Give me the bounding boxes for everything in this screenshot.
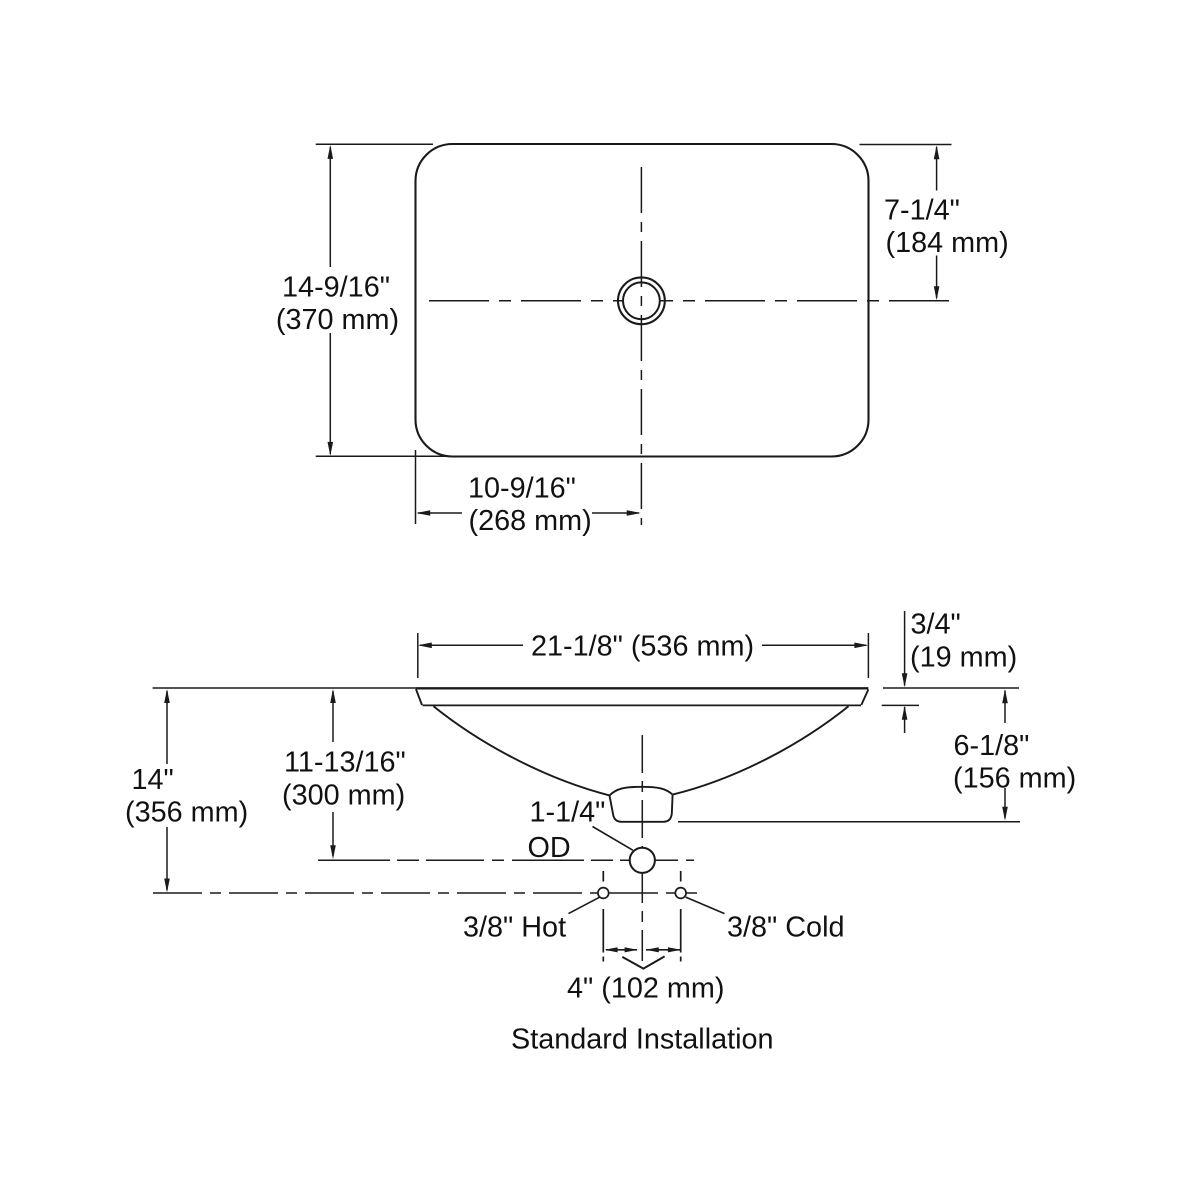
dimension line 10-9/16 xyxy=(418,512,462,514)
horizontal centerline top view xyxy=(429,300,950,302)
svg-text:3/8" Cold: 3/8" Cold xyxy=(727,912,844,944)
dimension line 7-1/4 xyxy=(936,147,938,191)
vertical centerline top view xyxy=(640,167,642,525)
svg-text:6-1/8": 6-1/8" xyxy=(954,730,1030,762)
hot supply circle xyxy=(598,888,609,899)
rim left end edge xyxy=(416,689,422,705)
sink top view outline xyxy=(416,144,869,457)
rim right end edge xyxy=(861,690,868,706)
svg-text:4" (102 mm): 4" (102 mm) xyxy=(567,973,724,1005)
svg-text:(268 mm): (268 mm) xyxy=(469,505,592,537)
dimension line 3/4 xyxy=(904,611,906,686)
dimension line 4 inch right half xyxy=(646,949,680,951)
extension line top left xyxy=(316,143,433,145)
svg-text:OD: OD xyxy=(528,832,571,864)
svg-text:(19 mm): (19 mm) xyxy=(910,642,1017,674)
hot vertical dashed line xyxy=(602,871,604,882)
extension line rim bottom right xyxy=(882,704,919,706)
drain outlet circle xyxy=(630,848,655,873)
leader drain OD xyxy=(593,827,633,851)
sink rim bottom edge xyxy=(423,704,862,706)
front vertical centerline xyxy=(641,735,643,961)
faucet hole outer circle xyxy=(618,277,665,324)
svg-text:(156 mm): (156 mm) xyxy=(953,763,1076,795)
dimension line 21-1/8 xyxy=(420,644,523,646)
svg-text:3/4": 3/4" xyxy=(911,609,961,641)
svg-text:3/8" Hot: 3/8" Hot xyxy=(463,912,566,944)
dimension line 6-1/8 xyxy=(1004,691,1006,724)
dimension line 4 inch left half xyxy=(606,949,637,951)
bowl right profile xyxy=(673,706,849,794)
extension line bottom left xyxy=(316,455,455,457)
svg-text:10-9/16": 10-9/16" xyxy=(468,473,576,505)
leader cold xyxy=(686,897,725,914)
extension line 10-9/16 left xyxy=(415,450,417,524)
drain outlet centerline xyxy=(318,859,694,861)
extension line rim top right xyxy=(883,687,1019,689)
drain boss body xyxy=(610,795,673,822)
svg-text:Standard Installation: Standard Installation xyxy=(511,1024,774,1056)
supply centerline xyxy=(153,892,697,894)
dimension line 14-9/16 xyxy=(329,147,331,267)
cold vertical dashed line xyxy=(680,871,682,882)
svg-text:(184 mm): (184 mm) xyxy=(886,227,1009,259)
svg-text:14": 14" xyxy=(132,764,174,796)
svg-text:21-1/8" (536 mm): 21-1/8" (536 mm) xyxy=(531,631,754,663)
drain boss top bump xyxy=(610,787,673,796)
svg-text:14-9/16": 14-9/16" xyxy=(282,272,390,304)
leader hot xyxy=(569,897,600,913)
svg-text:7-1/4": 7-1/4" xyxy=(884,195,960,227)
dimension line 21-1/8 extension right xyxy=(867,633,869,678)
bowl left profile xyxy=(434,706,610,795)
extension line bowl bottom right xyxy=(678,821,1020,823)
cold supply circle xyxy=(675,888,686,899)
dimension line 14 xyxy=(166,691,168,764)
dimension line 21-1/8 extension left xyxy=(417,633,419,678)
extension line rim top left xyxy=(153,687,416,689)
dimension line 11-13/16 xyxy=(332,691,334,742)
centerline chevron xyxy=(622,956,664,968)
svg-text:1-1/4": 1-1/4" xyxy=(530,797,606,829)
svg-text:(356 mm): (356 mm) xyxy=(125,797,248,829)
svg-text:(370 mm): (370 mm) xyxy=(276,304,399,336)
svg-text:11-13/16": 11-13/16" xyxy=(284,747,406,779)
extension line top right xyxy=(860,144,952,146)
faucet hole inner circle xyxy=(623,282,660,319)
svg-text:(300 mm): (300 mm) xyxy=(282,780,405,812)
sink rim top edge xyxy=(416,687,869,689)
